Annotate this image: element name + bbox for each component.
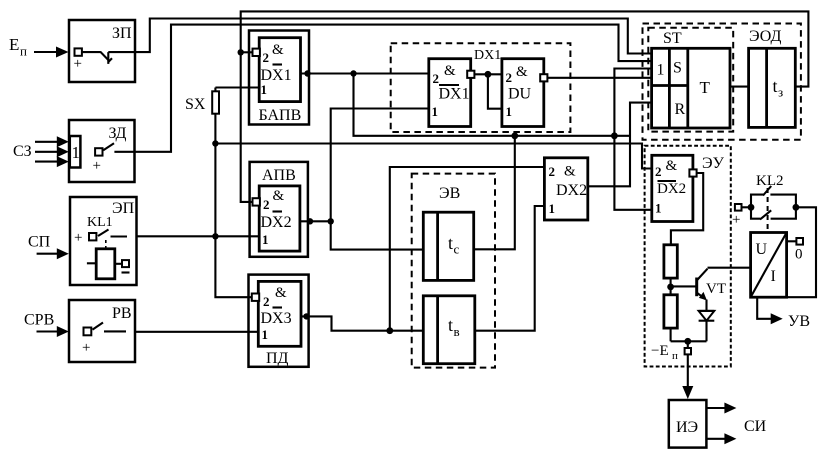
svg-text:в: в [454,324,460,339]
resistor R1 [664,245,677,278]
svg-text:з: з [778,85,783,100]
input Еп label [9,35,27,59]
svg-text:1: 1 [549,201,556,216]
svg-text:СРВ: СРВ [24,312,54,329]
svg-text:ЭП: ЭП [112,200,135,217]
wire SX vertical up from ЭП node through SX to БАПВ input 1 [215,88,259,237]
svg-text:+: + [93,158,101,174]
svg-text:0: 0 [795,247,803,263]
svg-text:t: t [448,233,453,253]
block U-I converter [751,233,787,298]
block ПД [249,275,309,367]
wire СЗ three input arrows [35,136,69,167]
wire ЗД output to trigger S input [135,25,652,152]
svg-text:VT: VT [706,281,726,297]
svg-text:ЭУ: ЭУ [702,155,725,172]
svg-text:DX2: DX2 [261,214,292,231]
svg-text:ПД: ПД [266,350,289,367]
terminal square -Еп [651,341,691,362]
mechanical link KL2 dashed [767,188,769,233]
svg-text:−E: −E [651,343,669,359]
mechanical link KL1 dashed [105,240,107,249]
node junction tc output on net line [511,132,518,139]
wire KL2 right to U-I block bottom [787,207,816,297]
timer block tc [423,212,473,280]
terminal square in ЗД [95,148,102,155]
terminal square 0 output [787,238,803,263]
svg-text:KL1: KL1 [87,215,113,230]
svg-text:АПВ: АПВ [262,167,296,184]
wire СП input arrow [37,248,69,259]
wire SX net line to ЭУ gate input 2 [215,144,651,169]
svg-text:+: + [74,230,82,246]
gate DX1bar in БАПВ [259,38,300,102]
wire branch down to DU input 1 [488,74,502,108]
svg-text:1: 1 [262,232,269,247]
wire РВ output to ПД input 1 [135,331,258,333]
dashed box DX1 [391,43,571,132]
svg-text:2: 2 [263,50,270,65]
wire net line down to ЭУ gate input 1 [614,136,651,210]
svg-text:SX: SX [185,96,206,113]
node junction base node [667,284,674,291]
svg-text:R: R [675,101,686,118]
gate DX2bar in АПВ [259,186,300,251]
terminal square ПД input 2 [252,294,259,301]
svg-text:РВ: РВ [112,305,132,322]
switch contact in РВ [93,323,127,332]
block АПВ [250,162,308,257]
node junction SX line split [212,140,218,146]
svg-text:T: T [700,78,711,97]
gate DX1bar inside dashed box [429,59,471,127]
node junction БАПВ output branch [350,70,356,76]
block РВ [69,300,135,362]
svg-text:E: E [9,35,19,54]
svg-text:ST: ST [663,30,682,47]
block ЗП [69,20,135,82]
diode VD [699,311,715,341]
contact KL1 in ЭП [98,230,127,237]
dashed box ЭУ [645,146,731,367]
OR cell 1 in ЗД [70,136,81,168]
svg-text:ЗД: ЗД [109,125,127,142]
svg-text:&: & [564,164,576,180]
block ИЭ [669,400,707,448]
wire feedback from t3 output along top to БАПВ and АПВ input 2 [241,11,809,202]
terminal square DX1bar output [467,71,474,78]
node junction tв input riser [386,327,393,334]
contact KL2 lower [751,207,796,219]
node junction ПД output [303,313,309,319]
svg-text:ЭОД: ЭОД [749,28,782,45]
wire ЭП output to АПВ input 1 [137,235,260,237]
wire ИЭ output arrows СИ [706,403,736,445]
terminal square in ЗП [75,48,82,55]
wire SX branch down to ПД input 2 [215,236,255,297]
dashed box ЭВ [412,174,495,368]
wire bottom node -Еп [671,340,707,342]
svg-text:п: п [672,350,678,362]
wire riser down to tc input [331,221,424,249]
svg-text:2: 2 [549,164,556,179]
node junction АПВ output riser [328,218,334,224]
wire trigger output to t3 [730,86,749,88]
svg-text:БАПВ: БАПВ [259,107,302,124]
terminal square ЭУ gate output [689,169,696,176]
svg-text:I: I [771,268,776,285]
switch contact in ЗД [103,143,134,152]
wire base lead [671,285,697,287]
wire net line up to trigger input [614,69,651,136]
svg-text:с: с [454,242,460,257]
svg-text:1: 1 [72,143,81,162]
terminal square БАПВ input 2 [253,49,260,56]
svg-text:2: 2 [263,294,270,309]
svg-text:U: U [756,241,768,258]
svg-text:2: 2 [263,197,270,212]
svg-text:1: 1 [655,201,662,216]
wire riser from ПД output node up to DX2 gate input 2 [390,167,545,331]
wire БАПВ output to gate DX1bar input 2 [301,72,429,74]
svg-text:DX1: DX1 [474,48,501,63]
terminal square in РВ [84,328,92,336]
svg-text:t: t [448,315,453,335]
wire tc output up to net line [474,136,515,250]
wire KL2 left lead [742,206,752,208]
svg-text:1: 1 [506,104,513,119]
node junction bottom [684,338,691,345]
relay coil KL1 [87,249,122,279]
node junction АПВ output [307,218,313,224]
node junction feedback / БАПВ input 2 [238,49,254,55]
gate DU [502,59,544,127]
wire riser up to DX1bar gate input 1 [331,109,429,222]
dashed box ЭОД outer [643,24,801,140]
switch contact in ЗП [82,52,135,64]
wire ЭУ gate output to resistor chain [671,173,703,245]
svg-text:п: п [20,44,27,59]
node junction net line split to trigger and ЭУ [611,132,618,139]
svg-text:&: & [275,285,287,301]
wire БАПВ output branch down to net line [354,74,631,136]
wire arrow into ИЭ from ЭУ bottom node [682,354,693,399]
wire Еп input arrow [34,47,69,58]
svg-text:ЗП: ЗП [112,25,132,42]
svg-text:УВ: УВ [788,313,810,330]
svg-text:ИЭ: ИЭ [676,419,698,436]
svg-text:2: 2 [655,164,662,179]
jumper SX [185,91,219,113]
svg-text:+: + [732,212,740,228]
dashed box ST [648,28,733,132]
svg-text:&: & [273,188,285,204]
svg-text:&: & [272,42,284,58]
wire collector to U-I block [708,267,751,269]
resistor R2 [664,295,677,328]
svg-text:СЗ: СЗ [13,143,32,160]
svg-text:2: 2 [433,71,440,86]
block ЗД [69,120,135,182]
terminal square minus in ЭП [122,260,130,272]
svg-text:&: & [516,64,528,80]
wire УВ output arrow [757,297,810,330]
wire СРВ input arrow [37,326,69,337]
svg-text:DX2: DX2 [657,181,686,197]
svg-text:DX2: DX2 [556,182,587,199]
terminal square in ЭП [89,233,96,240]
svg-text:2: 2 [506,70,513,85]
svg-text:СП: СП [28,234,51,251]
node junction KL2 right [793,204,800,211]
node junction DX1bar output [485,71,492,78]
node junction KL2 left [748,204,755,211]
wire ПД output to tв input [301,316,423,330]
block БАПВ [249,31,309,125]
svg-text:t: t [773,76,778,96]
wire R2 bottom lead [670,328,672,341]
svg-text:1: 1 [261,82,268,97]
terminal square DU output [540,74,547,81]
contact KL2 upper [751,186,796,207]
wire R1 to R2 [670,278,672,295]
wire DX2 output up to trigger R input [588,103,652,187]
svg-text:ЭВ: ЭВ [439,185,460,202]
svg-text:S: S [673,60,682,77]
svg-text:DX1: DX1 [439,86,470,103]
gate DX2 [544,158,587,220]
node junction ЭП output / SX line [212,233,218,239]
timer block tв [423,296,475,364]
terminal square АПВ input 2 [253,198,260,205]
gate DX3bar in ПД [258,281,301,346]
svg-text:+: + [82,340,90,356]
svg-text:DX3: DX3 [261,310,292,327]
svg-text:СИ: СИ [744,418,767,435]
svg-text:DU: DU [508,86,532,103]
svg-text:1: 1 [432,104,439,119]
wire АПВ output to vertical riser [300,220,331,222]
svg-text:&: & [444,63,456,79]
svg-text:&: & [666,158,678,174]
wire DU output to trigger S row [547,77,651,79]
transistor VT [697,269,726,301]
wire tв output up to DX2 input 1 [475,206,545,331]
gate DX2bar in ЭУ [652,155,693,221]
trigger T block [652,48,730,128]
block ЭП [70,197,137,285]
wire DX1bar output to DU input 2 [474,73,502,75]
timer block t3 in ЭОД [749,48,796,127]
wire emitter to diode [705,300,707,311]
svg-text:1: 1 [262,327,269,342]
wire ЗП output to trigger S input [135,19,652,54]
node junction БАПВ output [304,70,310,76]
terminal square KL2 plus [732,204,742,228]
svg-text:+: + [74,56,82,72]
svg-text:1: 1 [657,62,665,79]
